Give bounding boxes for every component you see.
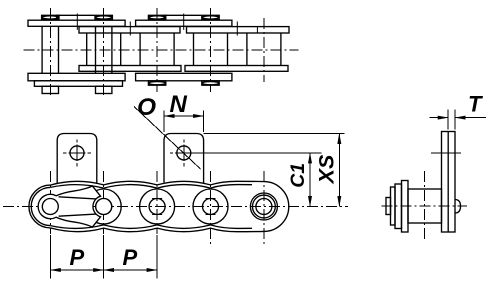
roller circle at pin4: [193, 189, 228, 224]
chain left end cap outer arc: [29, 185, 50, 228]
node pin5 centerline (front): [263, 171, 265, 246]
attachment 2 hole: [177, 146, 191, 160]
node pin1 centerline (plan): [49, 8, 51, 97]
roller circle at pin2: [86, 189, 121, 224]
pin circle at pin2 (over clip): [96, 199, 112, 215]
wire: end view horizontal centerline: [382, 205, 468, 207]
outer plate strip bottom, link 1-2: [28, 73, 125, 81]
pin2 body column (plan): [95, 27, 97, 74]
C1 dimension line: [309, 153, 311, 207]
pin5 cut circles: [256, 199, 272, 215]
pin1 head capsule (plan top): [42, 15, 59, 19]
pin circle at pin1 (over clip): [42, 199, 58, 215]
chain plate outline top wave (front): [50, 181, 264, 185]
node pin1 centerline (front): [49, 171, 51, 234]
joint tick near pin5: [256, 27, 258, 33]
svg-text:XS: XS: [314, 154, 338, 184]
P dimension line 1: [50, 269, 103, 271]
inner plate (end view): [402, 181, 409, 233]
pin end left (end view): [386, 198, 391, 215]
roller at pin3 (plan): [139, 33, 141, 66]
pin circle at pin4: [203, 199, 219, 215]
svg-text:O: O: [137, 94, 156, 121]
node pin3 centerline (plan): [156, 8, 158, 92]
P extension lines: [49, 235, 51, 279]
svg-text:P: P: [70, 245, 85, 270]
joint tick link 4-5: [236, 22, 238, 36]
roller at pin4 (plan): [193, 33, 195, 66]
N dimension line: [164, 115, 204, 117]
node pin2 centerline (front): [103, 171, 105, 234]
chain plate outline bottom wave (front): [50, 228, 264, 232]
joint tick link 2-3: [129, 22, 131, 36]
pin2 head capsule (plan top): [95, 15, 112, 19]
XS extension line: [204, 133, 345, 135]
attachment plate 1 (front): [57, 134, 97, 185]
pin circle at pin1: [42, 199, 58, 215]
XS dimension line: [338, 134, 340, 207]
inner plate strip top, link 2-3: [79, 27, 180, 33]
chain left end cap inner arc: [31, 187, 50, 225]
O leader line: [134, 107, 201, 170]
pin circle at pin2: [96, 199, 112, 215]
pin3 head capsule (plan top): [148, 15, 165, 19]
attachment plate 2 (front): [164, 134, 204, 184]
attachment hole tick link 1-2: [76, 14, 78, 30]
svg-text:C1: C1: [287, 163, 309, 188]
outer plate strip top, link 1-2: [28, 20, 125, 26]
chain plate inner line bottom wave (front): [50, 225, 252, 229]
chain plate inner line top wave (front): [50, 185, 252, 189]
spring clip (front, link 1-2): [38, 186, 100, 227]
attachment upright plate (end view): [442, 132, 456, 233]
pin1 body column (plan): [41, 27, 43, 74]
attachment edge strip top, link 1-2: [57, 15, 95, 20]
chain right end cap arc: [264, 182, 289, 232]
outer plate strip bottom, link 3-4: [136, 73, 232, 81]
C1 extension line: [191, 152, 322, 154]
node pin2 centerline (plan): [103, 8, 105, 97]
T dimension arrows: [430, 117, 449, 119]
node pin5 centerline (plan): [263, 18, 265, 82]
outer plate (end view): [395, 184, 402, 229]
svg-text:P: P: [123, 245, 138, 270]
attachment hole centerline tick (end view): [431, 152, 461, 154]
pin1 slotted end (plan bottom): [42, 86, 58, 93]
roller at pin2 (plan): [86, 33, 88, 66]
roller at pin5 (plan): [246, 33, 248, 66]
pin4 head capsule (plan bottom): [202, 81, 219, 85]
wire: plan horizontal centerline: [24, 49, 299, 51]
svg-text:T: T: [468, 92, 483, 117]
pin2 slotted end (plan bottom): [96, 86, 112, 93]
attachment hole tick link 3-4: [183, 14, 185, 30]
spring clip inner slot: [59, 197, 96, 216]
roller circle at pin3: [140, 189, 175, 224]
outer washer plate (end view): [391, 187, 396, 225]
pin circle at pin3: [149, 199, 165, 215]
attachment 1 hole: [70, 146, 84, 160]
wire: end view vertical centerline: [424, 171, 426, 241]
pin end right bump (end view): [455, 200, 461, 214]
attachment edge strip top, link 3-4: [164, 15, 201, 20]
node pin4 centerline (front): [210, 171, 212, 246]
inner plate strip top, link 4-5: [187, 27, 290, 33]
pin4 head capsule (plan top): [202, 15, 219, 19]
T extension lines: [447, 110, 449, 130]
node pin4 centerline (plan): [210, 8, 212, 92]
roller (end view): [408, 189, 442, 223]
spring clip strip (plan bottom, link 1-2): [34, 81, 122, 87]
P dimension line 2: [104, 269, 157, 271]
inner plate strip bottom, link 2-3: [79, 66, 181, 72]
outer plate strip top, link 3-4: [136, 20, 232, 26]
wire: front horizontal centerline: [3, 206, 348, 208]
pin3 head capsule (plan bottom): [148, 81, 165, 85]
inner plate strip bottom, link 4-5: [185, 66, 288, 72]
svg-text:N: N: [170, 91, 188, 118]
node pin3 centerline (front): [156, 171, 158, 234]
N extension lines: [163, 111, 165, 133]
